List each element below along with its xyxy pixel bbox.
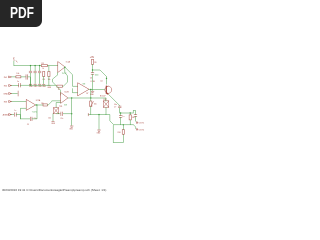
- svg-text:IC2A: IC2A: [36, 99, 41, 102]
- svg-text:1u: 1u: [14, 110, 16, 112]
- wire R10 to rail: [122, 125, 124, 130]
- wire TR2 to rail: [90, 107, 92, 115]
- junction collector node: [106, 78, 107, 79]
- wire out rail top: [120, 112, 134, 114]
- wire IC1A output to IC1B input: [65, 67, 78, 86]
- wire bottom loop: [113, 125, 123, 143]
- wire out rail bottom: [114, 124, 134, 126]
- trimmer TR2: [90, 101, 97, 107]
- svg-text:10k: 10k: [16, 73, 19, 75]
- svg-text:IN3: IN3: [4, 102, 8, 104]
- svg-text:AGND: AGND: [3, 114, 10, 117]
- wire IC2A feedback loop: [21, 108, 27, 119]
- junction IC2A output: [36, 104, 37, 105]
- connector pin AGND: [3, 114, 14, 117]
- connector pin IN2: [4, 85, 19, 88]
- ground mid: [97, 130, 102, 135]
- wire node to IC2B noninverting input: [30, 85, 60, 95]
- wire mid rail to out rail bottom: [106, 115, 114, 125]
- wire R9 to junction: [92, 64, 94, 70]
- capacitor C3: [34, 66, 37, 84]
- junction bus C4: [39, 65, 40, 66]
- footer caption: [2, 188, 106, 192]
- svg-text:358: 358: [82, 84, 85, 86]
- junction IN node: [30, 85, 31, 86]
- capacitor C8: [119, 113, 124, 125]
- wire R2 to C13: [21, 76, 26, 78]
- trimmer TR1: [53, 106, 62, 114]
- ground under TR1: [51, 121, 56, 125]
- ground left of rail: [87, 113, 89, 116]
- svg-text:22u: 22u: [60, 118, 63, 120]
- svg-text:Q1: Q1: [100, 81, 102, 83]
- svg-text:+9V: +9V: [14, 57, 16, 61]
- svg-text:22u: 22u: [34, 118, 37, 120]
- ground under C6: [90, 91, 95, 96]
- svg-text:TR1: TR1: [59, 106, 62, 108]
- wire TR1 wiper down: [52, 114, 54, 121]
- svg-text:R1: R1: [42, 63, 45, 65]
- op-amp IC1B: [78, 81, 96, 96]
- resistor R5 feedback: [57, 85, 63, 91]
- wire rail to OUT2: [134, 125, 136, 129]
- svg-text:OUT1: OUT1: [139, 123, 145, 125]
- ground under C3: [34, 84, 39, 88]
- svg-text:GND: GND: [47, 87, 52, 89]
- svg-text:10k: 10k: [94, 103, 97, 105]
- wire C10 to loop corner: [63, 113, 71, 115]
- capacitor C6: [90, 70, 99, 91]
- wire supply to collector: [93, 70, 107, 84]
- junction supply: [92, 69, 93, 70]
- svg-text:1k: 1k: [42, 68, 44, 70]
- wire mid rail: [89, 114, 106, 116]
- ground below IC2B loop: [69, 126, 74, 131]
- svg-text:IN2: IN2: [4, 86, 8, 88]
- svg-text:OUT2: OUT2: [139, 129, 145, 131]
- svg-text:GND: GND: [97, 133, 102, 135]
- svg-text:R6: R6: [41, 103, 43, 105]
- svg-text:IC1A: IC1A: [66, 60, 71, 63]
- resistor R8: [129, 113, 135, 125]
- wire IC1A inverting input loop: [53, 73, 58, 87]
- junction loop gnd: [71, 113, 72, 114]
- svg-text:GND: GND: [69, 129, 74, 131]
- capacitor C5: [27, 117, 37, 126]
- svg-text:100n: 100n: [95, 74, 99, 76]
- svg-text:358: 358: [64, 105, 67, 107]
- PDF badge: [0, 0, 42, 27]
- svg-text:R9: R9: [94, 62, 96, 64]
- svg-text:GND: GND: [3, 94, 8, 96]
- resistor R2: [16, 73, 21, 78]
- wire loop right to IC2B output: [71, 98, 73, 114]
- capacitor C12: [14, 110, 20, 119]
- connector pin IN1: [4, 76, 16, 79]
- wire from label to bus: [13, 61, 15, 66]
- wire R6 to IC2B inverting input: [47, 101, 60, 105]
- svg-text:IN1: IN1: [4, 77, 8, 79]
- junction IC1A output: [64, 67, 65, 68]
- junction bus C2: [30, 65, 31, 66]
- resistor R4: [47, 66, 52, 90]
- svg-text:C5: C5: [27, 124, 29, 126]
- wire mid rail down: [98, 115, 100, 130]
- wire IC1B inverting stub: [73, 89, 78, 93]
- wire C9 to OUT1: [135, 116, 138, 121]
- svg-text:GND: GND: [90, 94, 95, 96]
- connector pin GND1: [3, 91, 18, 96]
- svg-text:C6: C6: [90, 78, 92, 80]
- junction out rail 2: [130, 112, 131, 113]
- wire IC2B output to divider: [68, 97, 106, 99]
- svg-text:GND: GND: [42, 86, 47, 88]
- svg-text:R7: R7: [86, 93, 88, 95]
- wire TR1 to C10: [56, 113, 60, 115]
- op-amp IC1A: [58, 60, 71, 75]
- junction divider: [90, 97, 91, 98]
- junction IC2B output: [71, 97, 72, 98]
- svg-text:10k: 10k: [48, 118, 51, 120]
- op-amp IC2B: [61, 91, 70, 106]
- junction mid rail: [98, 114, 99, 115]
- wire emitter down: [109, 95, 120, 107]
- wire LSP1 top: [105, 98, 107, 101]
- svg-text:1k: 1k: [58, 89, 60, 91]
- junction out rail bottom: [123, 124, 124, 125]
- capacitor C10: [60, 112, 63, 120]
- resistor R1: [41, 63, 47, 70]
- capacitor C1: [17, 81, 20, 87]
- svg-text:IC2B: IC2B: [64, 91, 69, 93]
- svg-text:10k: 10k: [132, 117, 135, 119]
- junction out rail: [120, 112, 121, 113]
- loudspeaker LSP1: [103, 99, 109, 108]
- wire R5 to IC1A output: [63, 67, 68, 86]
- resistor R9: [91, 59, 96, 64]
- svg-text:TL072: TL072: [32, 111, 37, 113]
- wire LSP1 bottom: [105, 107, 107, 114]
- svg-text:+9V: +9V: [90, 56, 95, 59]
- capacitor C13: [26, 75, 28, 80]
- capacitor C2: [29, 66, 32, 84]
- svg-text:R10: R10: [118, 132, 121, 134]
- svg-text:1u: 1u: [122, 116, 124, 118]
- junction base node: [90, 89, 91, 90]
- wire C13 to node: [28, 77, 31, 85]
- wire IC2A output to R6: [35, 104, 43, 106]
- wire input bus: [14, 65, 41, 67]
- capacitor C7: [114, 104, 121, 113]
- op-amp IC2A: [26, 99, 41, 113]
- wire C1 to node: [20, 84, 30, 86]
- svg-text:BC547: BC547: [100, 96, 106, 98]
- svg-text:C7: C7: [114, 106, 116, 108]
- ground under C2: [29, 84, 34, 88]
- junction bus C3: [34, 65, 35, 66]
- wire bus to IC1A: [47, 65, 57, 67]
- svg-text:1u: 1u: [17, 81, 19, 83]
- capacitor C4: [38, 66, 41, 84]
- ground under C4: [38, 84, 43, 88]
- wire loop to ground: [71, 114, 73, 126]
- wire C5 to IC2A output: [32, 105, 37, 119]
- wire IC1B output to Q1 base: [89, 88, 105, 90]
- wire divider vertical: [90, 90, 92, 102]
- transistor Q1: [100, 81, 112, 98]
- wire out rail jog: [133, 110, 135, 114]
- wire loop bottom: [21, 118, 30, 120]
- wire IC2B inverting loop: [56, 103, 61, 108]
- connector pin IN3: [4, 101, 26, 104]
- connector pin OUT2: [136, 129, 145, 132]
- svg-text:IC1B: IC1B: [91, 81, 96, 83]
- resistor R6: [41, 103, 47, 106]
- resistor R10: [118, 130, 125, 135]
- connector pin OUT1: [136, 122, 145, 125]
- svg-text:GND: GND: [51, 123, 56, 125]
- capacitor C9: [134, 115, 137, 117]
- resistor R3: [42, 72, 47, 89]
